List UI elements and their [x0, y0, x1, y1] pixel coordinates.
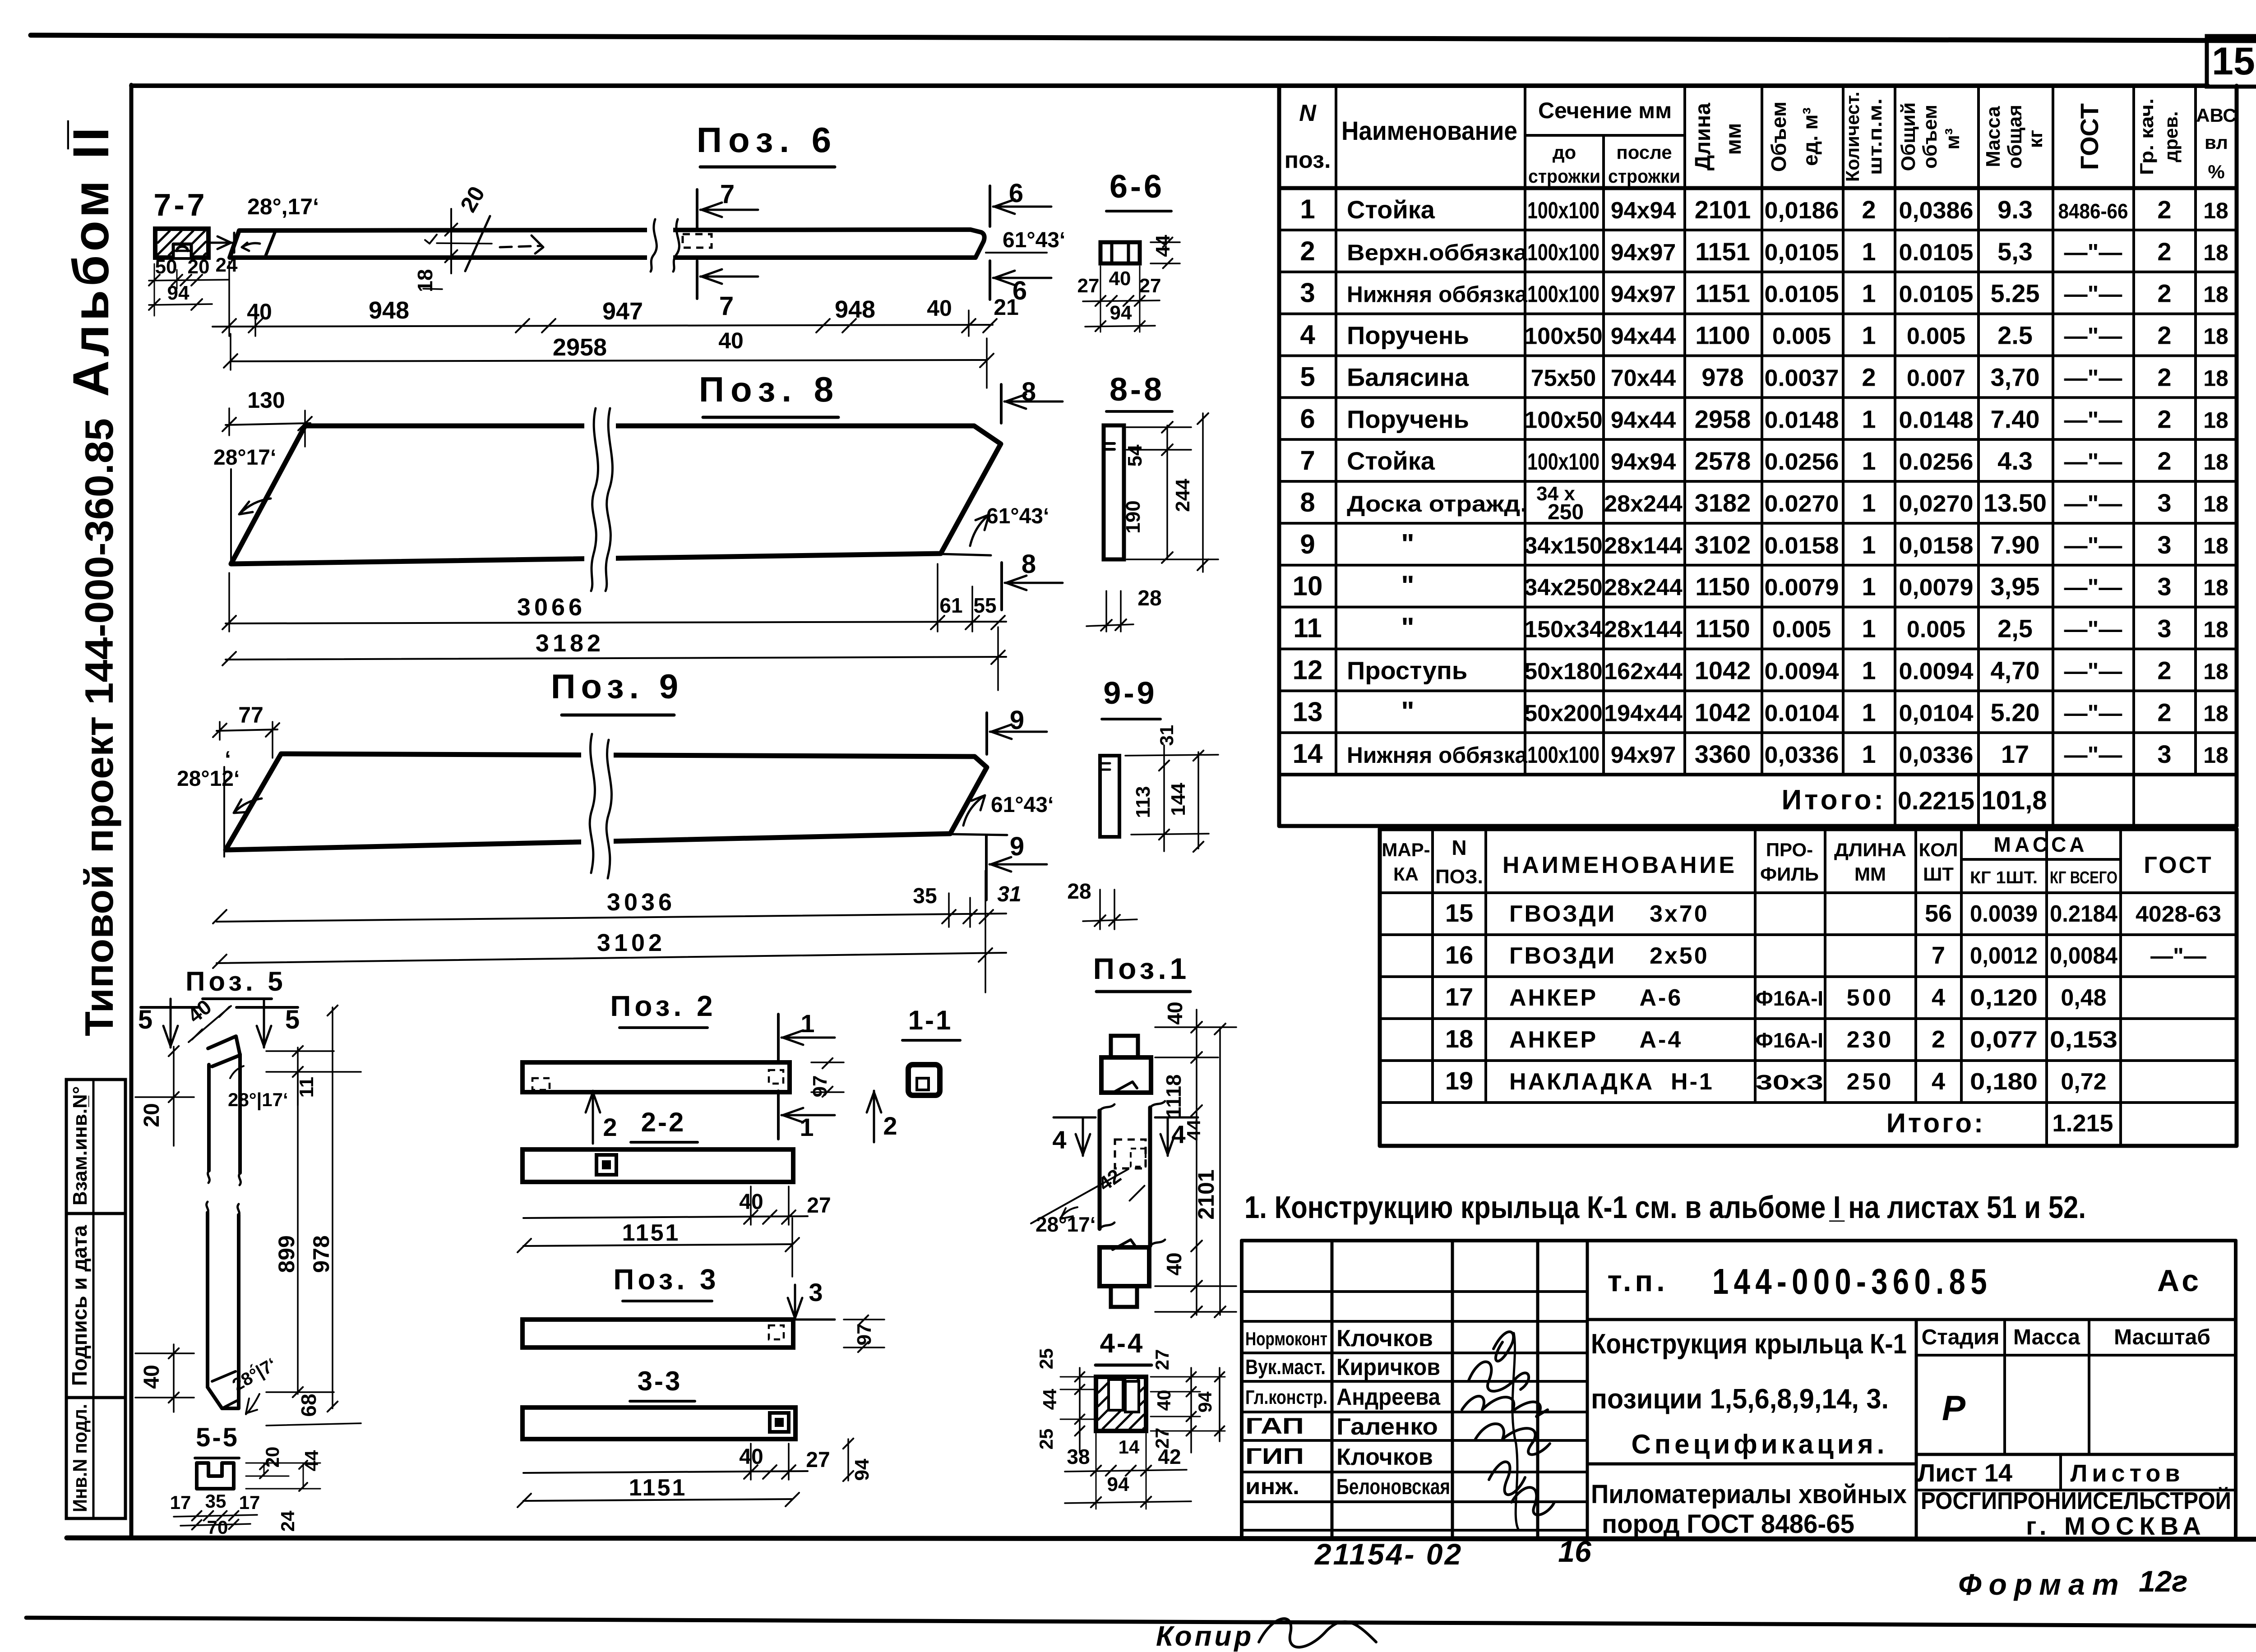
- svg-text:0.0256: 0.0256: [1899, 449, 1974, 475]
- svg-text:2101: 2101: [1695, 195, 1751, 224]
- svg-text:24: 24: [216, 254, 238, 276]
- svg-text:Клочков: Клочков: [1336, 1325, 1433, 1352]
- svg-text:5.20: 5.20: [1991, 698, 2040, 726]
- svg-text:75х50: 75х50: [1531, 365, 1596, 391]
- svg-text:100х100: 100х100: [1527, 240, 1600, 266]
- svg-text:Доска отражд.: Доска отражд.: [1347, 491, 1527, 517]
- svg-text:2101: 2101: [1193, 1169, 1219, 1219]
- svg-text:94х44: 94х44: [1611, 323, 1676, 350]
- svg-text:94х97: 94х97: [1611, 281, 1676, 308]
- svg-text:после: после: [1616, 142, 1672, 163]
- svg-text:древ.: древ.: [2160, 111, 2182, 162]
- svg-text:44: 44: [1039, 1389, 1060, 1410]
- svg-text:97: 97: [853, 1324, 875, 1346]
- svg-text:2: 2: [1862, 195, 1876, 224]
- svg-text:Сечение мм: Сечение мм: [1538, 98, 1672, 123]
- svg-text:ПРО-: ПРО-: [1766, 839, 1813, 860]
- svg-text:9.3: 9.3: [1997, 195, 2033, 224]
- svg-text:500: 500: [1847, 985, 1894, 1011]
- svg-text:94: 94: [851, 1458, 873, 1481]
- svg-text:244: 244: [1172, 479, 1194, 512]
- svg-text:общая: общая: [2004, 105, 2026, 169]
- поз.3 dims 40/27/94: [523, 1471, 808, 1473]
- svg-text:ГОСТ: ГОСТ: [2075, 103, 2103, 170]
- svg-text:Итого:: Итого:: [1781, 784, 1886, 816]
- section mark 8 bottom: [1000, 563, 1003, 610]
- svg-text:0.005: 0.005: [1907, 617, 1965, 643]
- svg-text:г. МОСКВА: г. МОСКВА: [2026, 1512, 2206, 1540]
- section mark 9 top: [985, 713, 988, 754]
- svg-text:0,0084: 0,0084: [2050, 943, 2117, 969]
- svg-text:56: 56: [1925, 900, 1952, 927]
- section mark 8 top: [1000, 384, 1003, 423]
- metal table grid: [1378, 829, 1382, 1146]
- svg-text:50х200: 50х200: [1524, 700, 1603, 726]
- svg-text:250: 250: [1847, 1069, 1894, 1095]
- svg-text:2: 2: [883, 1112, 897, 1140]
- svg-text:100х100: 100х100: [1527, 449, 1600, 475]
- svg-text:0.0079: 0.0079: [1765, 575, 1839, 601]
- section mark 4 left: [1054, 1117, 1096, 1119]
- svg-text:8486-66: 8486-66: [2058, 199, 2128, 223]
- svg-text:строжки: строжки: [1528, 166, 1600, 187]
- svg-text:Ф16А-I: Ф16А-I: [1756, 987, 1823, 1010]
- svg-text:0.007: 0.007: [1907, 365, 1965, 391]
- svg-text:28х244: 28х244: [1604, 491, 1683, 517]
- поз.1 right dims 40/1118/44/40: [1196, 1010, 1197, 1315]
- поз.5 балясина body: [208, 1036, 240, 1066]
- svg-text:28°,17ʻ: 28°,17ʻ: [247, 194, 319, 219]
- svg-text:АВС: АВС: [2196, 105, 2236, 126]
- svg-text:1100: 1100: [1695, 321, 1750, 350]
- svg-text:КОЛ: КОЛ: [1919, 839, 1958, 860]
- поз.2 bar: [522, 1062, 790, 1092]
- svg-text:пород ГОСТ 8486-65: пород ГОСТ 8486-65: [1602, 1509, 1854, 1539]
- svg-text:18: 18: [2203, 365, 2228, 391]
- svg-text:объем: объем: [1919, 105, 1941, 169]
- svg-text:7.90: 7.90: [1991, 531, 2040, 559]
- svg-text:5,3: 5,3: [1997, 237, 2033, 266]
- svg-text:Количест.: Количест.: [1842, 92, 1863, 182]
- svg-text:100х50: 100х50: [1524, 323, 1603, 350]
- svg-text:Андреева: Андреева: [1336, 1384, 1441, 1410]
- svg-text:3: 3: [2157, 489, 2171, 517]
- svg-text:2.5: 2.5: [1997, 321, 2033, 350]
- svg-text:ГВОЗДИ 2х50: ГВОЗДИ 2х50: [1509, 943, 1709, 969]
- поз.1 bottom cap: [1100, 1247, 1149, 1286]
- svg-text:20: 20: [140, 1103, 164, 1127]
- svg-text:4-4: 4-4: [1100, 1328, 1145, 1358]
- svg-text:1151: 1151: [622, 1220, 680, 1246]
- section 9-9 profile: [1100, 756, 1119, 837]
- svg-text:Масштаб: Масштаб: [2114, 1325, 2210, 1349]
- svg-text:АНКЕР А-4: АНКЕР А-4: [1509, 1027, 1683, 1053]
- поз.1 top tenon: [1111, 1036, 1138, 1057]
- section mark 9 bottom: [985, 835, 988, 900]
- svg-text:2958: 2958: [1695, 405, 1751, 433]
- svg-text:кг: кг: [2025, 130, 2047, 148]
- svg-text:0.0105: 0.0105: [1899, 240, 1974, 266]
- svg-text:13: 13: [1293, 697, 1323, 727]
- поз.3 bar: [522, 1320, 793, 1347]
- svg-text:0.0039: 0.0039: [1970, 901, 2038, 927]
- svg-text:1150: 1150: [1695, 614, 1750, 643]
- svg-text:ГОСТ: ГОСТ: [2144, 852, 2213, 878]
- svg-text:2: 2: [2157, 405, 2171, 433]
- svg-text:0.0037: 0.0037: [1765, 365, 1839, 391]
- svg-text:1. Конструкцию крыльца К-1 с: 1. Конструкцию крыльца К-1 см. в альбоме…: [1244, 1190, 2086, 1225]
- page top border line: [31, 35, 2256, 41]
- svg-text:27: 27: [807, 1194, 831, 1218]
- svg-text:978: 978: [309, 1235, 334, 1273]
- svg-text:21154- 02: 21154- 02: [1314, 1537, 1463, 1571]
- svg-text:ПОЗ.: ПОЗ.: [1435, 866, 1483, 888]
- svg-text:1.215: 1.215: [2052, 1110, 2113, 1137]
- svg-text:9-9: 9-9: [1103, 675, 1157, 711]
- svg-text:—"—: —"—: [2064, 365, 2122, 391]
- svg-text:ДЛИНА: ДЛИНА: [1834, 839, 1906, 860]
- поз.9 board: [226, 754, 987, 850]
- svg-text:17: 17: [1445, 983, 1473, 1011]
- svg-text:28: 28: [1067, 880, 1091, 904]
- side box Подпись и дата: [66, 1214, 125, 1398]
- svg-text:Белоновская: Белоновская: [1336, 1475, 1450, 1499]
- svg-text:2: 2: [2157, 447, 2171, 475]
- svg-text:ММ: ММ: [1854, 863, 1886, 885]
- svg-text:28х144: 28х144: [1604, 617, 1683, 643]
- svg-text:30х3: 30х3: [1756, 1071, 1823, 1094]
- svg-text:250: 250: [1548, 500, 1584, 524]
- svg-text:—"—: —"—: [2064, 449, 2122, 475]
- svg-text:948: 948: [369, 297, 409, 324]
- svg-text:Нижняя оббязка: Нижняя оббязка: [1347, 743, 1528, 768]
- svg-text:44: 44: [301, 1450, 322, 1471]
- section 7-7 hatched profile: [155, 229, 208, 258]
- svg-text:Общий: Общий: [1897, 102, 1919, 171]
- svg-text:—"—: —"—: [2064, 742, 2122, 768]
- svg-text:18: 18: [2203, 701, 2228, 726]
- svg-text:113: 113: [1132, 786, 1154, 818]
- поз.6 dim line 40/948/40/947: [213, 325, 993, 327]
- svg-text:50: 50: [155, 256, 177, 278]
- svg-text:0.0270: 0.0270: [1765, 491, 1839, 517]
- svg-text:": ": [1401, 696, 1414, 727]
- svg-text:N: N: [1452, 836, 1466, 859]
- svg-text:т.п.: т.п.: [1607, 1264, 1668, 1297]
- svg-text:8: 8: [1300, 487, 1315, 517]
- svg-text:18: 18: [2203, 617, 2228, 642]
- svg-text:21: 21: [994, 295, 1019, 320]
- svg-text:Проступь: Проступь: [1347, 656, 1467, 684]
- svg-text:17: 17: [2001, 740, 2029, 768]
- svg-text:0.0256: 0.0256: [1765, 449, 1839, 475]
- svg-text:18: 18: [2203, 491, 2228, 517]
- svg-text:18: 18: [2203, 743, 2228, 768]
- svg-text:N: N: [1299, 100, 1317, 126]
- svg-text:15: 15: [2212, 40, 2255, 83]
- svg-text:94: 94: [1110, 302, 1132, 324]
- svg-text:94х94: 94х94: [1611, 198, 1676, 224]
- svg-text:инж.: инж.: [1245, 1474, 1299, 1499]
- svg-text:1: 1: [1862, 447, 1876, 475]
- svg-text:—"—: —"—: [2064, 658, 2122, 684]
- svg-text:Балясина: Балясина: [1347, 363, 1469, 391]
- svg-text:1150: 1150: [1695, 572, 1750, 601]
- svg-text:101,8: 101,8: [1981, 786, 2047, 815]
- поз.9 dim 3036: [217, 914, 1006, 922]
- svg-text:70: 70: [207, 1517, 228, 1538]
- signatures squiggles: [1469, 1332, 1529, 1391]
- svg-text:4.3: 4.3: [1997, 447, 2033, 475]
- section 6-6 profile: [1100, 242, 1140, 263]
- svg-text:28°17ʻ: 28°17ʻ: [213, 446, 276, 470]
- svg-text:Ф16А-I: Ф16А-I: [1756, 1029, 1823, 1052]
- section 3-3 bar: [522, 1407, 795, 1439]
- svg-text:Поз. 8: Поз. 8: [699, 369, 840, 409]
- side box Взам.инв.N: [66, 1080, 125, 1214]
- svg-text:ФИЛЬ: ФИЛЬ: [1760, 863, 1819, 885]
- svg-text:9: 9: [1010, 832, 1024, 861]
- svg-text:ед. м³: ед. м³: [1798, 107, 1822, 166]
- svg-text:шт.п.м.: шт.п.м.: [1864, 98, 1886, 175]
- svg-text:27: 27: [1077, 275, 1100, 297]
- svg-text:—"—: —"—: [2064, 323, 2122, 350]
- svg-text:1: 1: [1862, 740, 1876, 768]
- svg-text:27: 27: [1151, 1349, 1173, 1371]
- svg-text:8: 8: [1022, 377, 1036, 406]
- svg-text:0.0148: 0.0148: [1765, 407, 1839, 433]
- svg-text:0,0386: 0,0386: [1899, 198, 1974, 224]
- svg-text:144-000-360.85: 144-000-360.85: [1712, 1261, 1992, 1301]
- svg-text:7: 7: [719, 291, 734, 321]
- svg-text:31: 31: [997, 882, 1021, 906]
- svg-text:978: 978: [1701, 363, 1743, 391]
- svg-text:0.005: 0.005: [1772, 323, 1831, 350]
- section 1-1 profile: [908, 1065, 940, 1095]
- svg-text:3: 3: [809, 1278, 823, 1306]
- svg-text:Наименование: Наименование: [1341, 116, 1517, 146]
- page bottom line: [26, 1618, 2256, 1626]
- svg-text:3360: 3360: [1695, 740, 1751, 768]
- svg-text:4: 4: [1932, 984, 1945, 1011]
- svg-text:Типовой проект 144-000-360.85: Типовой проект 144-000-360.85: [77, 418, 121, 1036]
- svg-text:5: 5: [285, 1005, 300, 1034]
- svg-text:Формат: Формат: [1958, 1568, 2126, 1601]
- svg-text:230: 230: [1847, 1027, 1894, 1053]
- section 8-8 dim 244: [1202, 413, 1204, 572]
- svg-text:2: 2: [2157, 363, 2171, 391]
- поз.2 dims 40/27: [523, 1216, 808, 1218]
- поз.2 dim 1151: [523, 1244, 792, 1246]
- svg-text:11: 11: [1293, 613, 1322, 643]
- svg-text:Конструкция крыльца К-1: Конструкция крыльца К-1: [1591, 1329, 1907, 1360]
- svg-text:Масса: Масса: [1982, 106, 2004, 167]
- svg-text:3066: 3066: [517, 594, 586, 621]
- svg-text:94: 94: [167, 282, 190, 304]
- section mark 1 top: [777, 1014, 780, 1062]
- svg-text:Клочков: Клочков: [1336, 1444, 1433, 1470]
- svg-text:0.0105: 0.0105: [1899, 281, 1974, 308]
- svg-text:25: 25: [1036, 1429, 1057, 1450]
- svg-text:Вук.маст.: Вук.маст.: [1245, 1355, 1326, 1379]
- svg-text:НАИМЕНОВАНИЕ: НАИМЕНОВАНИЕ: [1502, 852, 1737, 878]
- svg-text:61°43ʻ: 61°43ʻ: [1003, 228, 1065, 252]
- svg-text:Нижняя оббязка: Нижняя оббязка: [1347, 282, 1528, 307]
- svg-text:7-7: 7-7: [153, 187, 207, 222]
- svg-text:19: 19: [1445, 1066, 1473, 1095]
- svg-text:194х44: 194х44: [1604, 700, 1683, 726]
- svg-text:1: 1: [1862, 572, 1876, 601]
- svg-text:50х180: 50х180: [1524, 658, 1603, 684]
- svg-text:1-1: 1-1: [908, 1005, 953, 1035]
- svg-text:34х150: 34х150: [1524, 533, 1603, 559]
- svg-text:1: 1: [800, 1009, 814, 1038]
- svg-text:Киричков: Киричков: [1336, 1354, 1440, 1380]
- svg-text:18: 18: [2203, 449, 2228, 475]
- поз.5 dim 899/978: [297, 1072, 299, 1394]
- svg-text:позиции 1,5,6,8,9,14, 3.: позиции 1,5,6,8,9,14, 3.: [1591, 1384, 1889, 1415]
- поз.9 break marks: [581, 749, 614, 862]
- svg-text:Альбом II̅: Альбом II̅: [63, 120, 119, 397]
- svg-text:0.005: 0.005: [1907, 323, 1965, 350]
- svg-text:Стойка: Стойка: [1347, 447, 1435, 475]
- svg-text:2: 2: [2157, 656, 2171, 684]
- svg-text:12: 12: [1293, 655, 1323, 685]
- svg-text:—"—: —"—: [2064, 491, 2122, 517]
- svg-text:7: 7: [1300, 445, 1315, 475]
- svg-text:3036: 3036: [607, 889, 675, 916]
- svg-text:40: 40: [1109, 268, 1131, 290]
- svg-text:2: 2: [2157, 237, 2171, 266]
- svg-text:18: 18: [2203, 324, 2228, 349]
- svg-text:17: 17: [239, 1492, 260, 1513]
- title block verticals left part: [1331, 1241, 1334, 1538]
- svg-text:2: 2: [2157, 321, 2171, 350]
- section 8-8 profile: [1104, 425, 1124, 559]
- svg-text:24: 24: [277, 1510, 298, 1532]
- section mark 1 bottom: [777, 1091, 780, 1139]
- svg-text:40: 40: [140, 1365, 164, 1389]
- svg-text:7: 7: [720, 180, 735, 209]
- svg-text:1: 1: [1862, 614, 1876, 643]
- svg-text:вл: вл: [2205, 132, 2228, 153]
- section mark 6 top: [989, 186, 991, 226]
- svg-text:899: 899: [274, 1235, 299, 1273]
- svg-text:—"—: —"—: [2064, 240, 2122, 266]
- svg-text:38: 38: [1067, 1445, 1090, 1468]
- svg-text:0,0270: 0,0270: [1899, 491, 1974, 517]
- svg-text:0,0104: 0,0104: [1899, 700, 1974, 726]
- svg-text:МАССА: МАССА: [1994, 833, 2088, 856]
- svg-text:Длина: Длина: [1691, 103, 1715, 171]
- svg-text:130: 130: [247, 388, 285, 413]
- svg-text:Лист 14: Лист 14: [1918, 1458, 2012, 1487]
- svg-text:25: 25: [1036, 1348, 1057, 1370]
- drawing frame bottom: [67, 1538, 2256, 1539]
- svg-text:—"—: —"—: [2064, 281, 2122, 308]
- svg-text:Спецификация.: Спецификация.: [1632, 1429, 1888, 1459]
- svg-text:17: 17: [170, 1492, 191, 1513]
- drawing frame left: [129, 85, 134, 1538]
- svg-text:0,0336: 0,0336: [1899, 742, 1974, 768]
- svg-text:55: 55: [973, 594, 996, 617]
- поз.6 dashed detail: [683, 234, 712, 248]
- svg-text:3: 3: [2157, 614, 2171, 643]
- svg-text:7: 7: [1932, 942, 1945, 969]
- drawing frame top: [131, 83, 2208, 88]
- svg-text:—"—: —"—: [2064, 533, 2122, 559]
- svg-text:28х244: 28х244: [1604, 575, 1683, 601]
- title block outer: [1240, 1241, 1244, 1538]
- section mark 2 left: [592, 1091, 594, 1144]
- svg-text:м³: м³: [1942, 128, 1964, 149]
- svg-text:94х97: 94х97: [1611, 240, 1676, 266]
- svg-text:8: 8: [1022, 549, 1036, 579]
- svg-text:1151: 1151: [1695, 279, 1750, 308]
- svg-text:94х97: 94х97: [1611, 742, 1676, 768]
- поз.6 dashed nail mark: [500, 246, 541, 247]
- поз.8 dim 3182: [226, 657, 1006, 660]
- svg-text:Стойка: Стойка: [1347, 195, 1435, 224]
- svg-text:Копир: Копир: [1156, 1621, 1254, 1652]
- svg-text:ГВОЗДИ 3х70: ГВОЗДИ 3х70: [1509, 901, 1709, 927]
- svg-text:3102: 3102: [1695, 531, 1751, 559]
- svg-text:28°17ʻ: 28°17ʻ: [1036, 1213, 1096, 1236]
- svg-text:Инв.N подл.: Инв.N подл.: [69, 1404, 91, 1512]
- svg-text:2: 2: [1932, 1026, 1945, 1053]
- svg-text:28х144: 28х144: [1604, 533, 1683, 559]
- svg-text:Поз. 5: Поз. 5: [185, 966, 287, 997]
- svg-text:40: 40: [1162, 1252, 1186, 1275]
- svg-text:1: 1: [1862, 489, 1876, 517]
- svg-text:1: 1: [1862, 237, 1876, 266]
- section mark 4 right: [1155, 1117, 1198, 1119]
- svg-text:27: 27: [1139, 275, 1161, 297]
- svg-text:35: 35: [913, 884, 937, 908]
- svg-text:150х34: 150х34: [1524, 617, 1603, 643]
- svg-text:40: 40: [718, 328, 744, 353]
- svg-text:1042: 1042: [1695, 698, 1751, 726]
- svg-text:0.0094: 0.0094: [1899, 658, 1974, 684]
- svg-text:Итого:: Итого:: [1886, 1108, 1985, 1138]
- svg-text:0,0079: 0,0079: [1899, 575, 1974, 601]
- svg-text:8-8: 8-8: [1110, 372, 1165, 408]
- svg-text:": ": [1401, 529, 1414, 560]
- svg-text:5.25: 5.25: [1991, 279, 2040, 308]
- svg-text:68: 68: [297, 1394, 320, 1417]
- svg-text:97: 97: [809, 1075, 831, 1098]
- svg-text:0.0104: 0.0104: [1765, 700, 1839, 726]
- svg-text:94: 94: [1194, 1391, 1216, 1412]
- svg-text:94х44: 94х44: [1611, 407, 1676, 433]
- svg-text:948: 948: [835, 296, 875, 323]
- svg-text:4: 4: [1932, 1068, 1945, 1095]
- svg-text:Поз.1: Поз.1: [1093, 952, 1190, 985]
- svg-text:0,153: 0,153: [2050, 1027, 2117, 1053]
- svg-text:1042: 1042: [1695, 656, 1751, 684]
- поз.5 bottom notch: [208, 1377, 239, 1408]
- section 8-8 dim 54/190: [1166, 425, 1168, 559]
- svg-text:35: 35: [205, 1490, 227, 1512]
- svg-text:Пиломатериалы хвойных: Пиломатериалы хвойных: [1591, 1480, 1907, 1509]
- svg-text:ГИП: ГИП: [1245, 1444, 1304, 1469]
- title block horizontal rows left part: [1242, 1290, 1587, 1293]
- svg-text:—"—: —"—: [2064, 575, 2122, 601]
- svg-text:Поручень: Поручень: [1347, 405, 1469, 433]
- svg-text:0,48: 0,48: [2061, 985, 2106, 1011]
- svg-text:16: 16: [1445, 941, 1473, 969]
- svg-text:40: 40: [1153, 1390, 1174, 1411]
